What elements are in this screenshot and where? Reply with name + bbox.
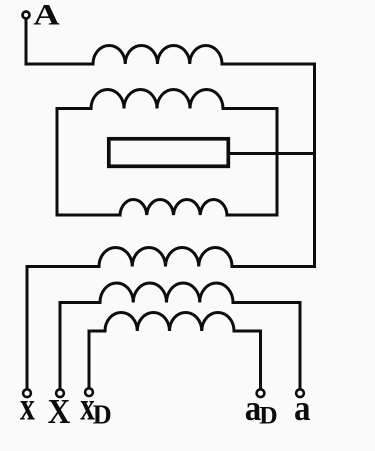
wire from winding 6 right end down to terminal aD bbox=[234, 331, 261, 389]
svg-text:D: D bbox=[259, 402, 277, 430]
terminal x bbox=[23, 389, 31, 397]
svg-text:a: a bbox=[294, 389, 311, 428]
terminal xD bbox=[85, 388, 93, 396]
winding 3 (inner loop bottom coil) bbox=[120, 200, 227, 215]
terminal X bbox=[56, 389, 64, 397]
winding 2 (inner loop top coil) bbox=[91, 90, 223, 109]
winding 5 (coil between X and a) bbox=[100, 283, 233, 303]
winding 6 (coil between xD and aD) bbox=[105, 312, 234, 331]
wire from terminal A down and right to winding 1 bbox=[26, 19, 93, 64]
wire left side of inner loop bbox=[57, 109, 120, 216]
wire lead from resistor box to right vertical bbox=[230, 152, 315, 155]
terminal a bbox=[296, 389, 304, 397]
wire right side of inner loop bbox=[223, 109, 277, 216]
svg-text:D: D bbox=[93, 399, 112, 429]
svg-text:A: A bbox=[33, 0, 59, 31]
winding 4 (series coil to terminal x) bbox=[99, 247, 232, 266]
winding 1 (top primary coil) bbox=[93, 45, 222, 64]
terminal A bbox=[23, 12, 30, 19]
wire from winding 5 left end down to terminal X bbox=[60, 303, 100, 390]
wire from winding 4 left end down to terminal x bbox=[27, 267, 99, 390]
wire from winding 1 right end, down right side, to winding 4 right end bbox=[222, 64, 315, 267]
wire from winding 6 left end down to terminal xD bbox=[89, 331, 105, 388]
terminal aD bbox=[257, 389, 265, 397]
svg-text:X: X bbox=[48, 392, 71, 431]
wire from winding 5 right end down to terminal a bbox=[233, 303, 300, 390]
svg-text:x: x bbox=[20, 384, 35, 428]
resistor box (damping resistor) bbox=[109, 139, 229, 167]
